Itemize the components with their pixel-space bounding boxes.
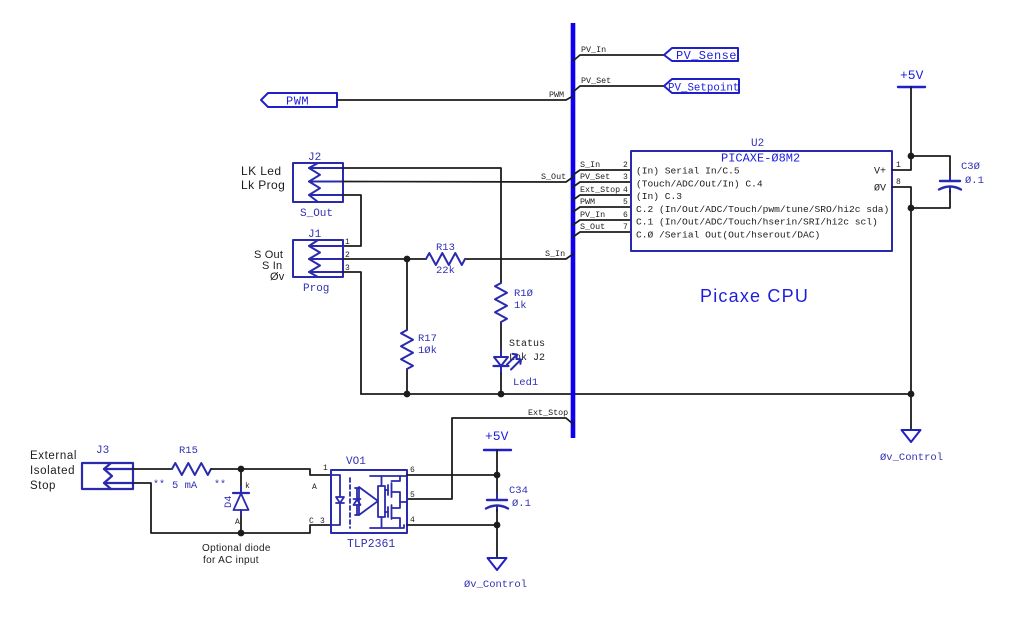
svg-text:Øv: Øv [270, 271, 285, 283]
svg-text:4: 4 [623, 186, 628, 195]
svg-text:1Øk: 1Øk [418, 345, 437, 357]
svg-text:PV_Setpoint: PV_Setpoint [668, 83, 739, 95]
wire C34 to ground [496, 510, 498, 558]
svg-text:**: ** [153, 479, 165, 491]
svg-text:22k: 22k [436, 265, 455, 277]
svg-text:Ø.1: Ø.1 [512, 498, 531, 510]
svg-text:PWM: PWM [580, 197, 595, 207]
resistor R10 [495, 283, 507, 322]
wire opto pin4 to ground rail [407, 524, 497, 526]
svg-text:S_In: S_In [545, 249, 565, 259]
wire R10 bottom lead to LED [500, 322, 502, 351]
capacitor C34 [486, 494, 508, 511]
power +5V (bottom) [484, 429, 511, 450]
svg-text:J2: J2 [308, 152, 321, 164]
wire opto pin6 to +5V [407, 474, 497, 476]
svg-text:A: A [235, 518, 240, 527]
svg-text:3: 3 [623, 173, 628, 182]
svg-text:Status: Status [509, 339, 545, 350]
flag PWM [261, 93, 337, 109]
svg-text:Isolated: Isolated [30, 465, 75, 477]
svg-text:6: 6 [410, 466, 415, 475]
svg-text:PV_In: PV_In [581, 45, 606, 55]
svg-text:1k: 1k [514, 300, 527, 312]
svg-text:Optional diode: Optional diode [202, 543, 271, 554]
connector J2 [293, 163, 343, 202]
svg-text:1: 1 [345, 238, 350, 247]
LED Led1 [494, 350, 522, 374]
junction LED/rail [498, 391, 505, 398]
svg-text:1: 1 [323, 464, 328, 473]
svg-text:PV_Sense: PV_Sense [676, 49, 737, 63]
node bus (main vertical bus) [361, 393, 911, 395]
wire 0v rail (horizontal, crosses under bus) [361, 393, 911, 395]
svg-text:2: 2 [623, 161, 628, 170]
svg-text:R1Ø: R1Ø [514, 288, 533, 300]
wire +5V stem to V+ pin [892, 87, 911, 170]
svg-text:PV_In: PV_In [580, 210, 605, 220]
power +5V (top) [898, 68, 925, 87]
diode D4 [233, 487, 249, 514]
svg-text:Stop: Stop [30, 480, 56, 492]
junction R15/D4 [238, 466, 245, 473]
svg-text:k: k [245, 482, 250, 491]
svg-text:Picaxe CPU: Picaxe CPU [700, 286, 809, 306]
junction 0V/C30 [908, 205, 915, 212]
svg-text:PWM: PWM [549, 90, 564, 100]
wire 0V pin to ground [892, 187, 911, 430]
svg-text:S_Out: S_Out [580, 222, 605, 232]
svg-text:S_In: S_In [580, 160, 600, 170]
svg-text:Ext_Stop: Ext_Stop [528, 408, 568, 418]
svg-text:Øv_Control: Øv_Control [880, 452, 943, 464]
svg-text:LK Led: LK Led [241, 164, 281, 178]
junction V+/C30 [908, 153, 915, 160]
svg-text:PICAXE-Ø8M2: PICAXE-Ø8M2 [721, 152, 800, 166]
svg-text:(In) Serial In/C.5: (In) Serial In/C.5 [636, 166, 740, 177]
svg-text:C: C [309, 517, 314, 526]
flag PV_Setpoint [664, 79, 739, 95]
resistor R17 [401, 330, 413, 369]
svg-text:C.2 (In/Out/ADC/Touch/pwm/tune: C.2 (In/Out/ADC/Touch/pwm/tune/SRO/hi2c … [636, 204, 889, 215]
resistor R15 [172, 463, 211, 475]
wire PV_Set (bus entry to PV_Setpoint flag) [573, 86, 664, 92]
svg-text:D4: D4 [223, 495, 235, 508]
svg-text:External: External [30, 450, 77, 462]
svg-text:C.Ø /Serial Out(Out/hserout/DA: C.Ø /Serial Out(Out/hserout/DAC) [636, 230, 820, 241]
transistor VO1 (opto-coupler TLP2361 body) [331, 470, 407, 533]
svg-text:5: 5 [623, 198, 628, 207]
wire LED to rail [500, 374, 502, 394]
svg-text:VO1: VO1 [346, 456, 366, 468]
svg-text:U2: U2 [751, 138, 764, 150]
wire Ext_Stop net (opto pin5 to bus) [407, 418, 573, 499]
wire C30 bottom branch [911, 191, 950, 208]
svg-text:(In) C.3: (In) C.3 [636, 191, 682, 202]
wire S_In net (J1 pin2 through R13 to bus) [343, 254, 573, 259]
svg-text:**: ** [214, 479, 226, 491]
flag PV_Sense [664, 48, 738, 63]
svg-text:R13: R13 [436, 242, 455, 254]
junction J1pin2/R17 [404, 256, 411, 263]
junction rail/0v_Control [908, 391, 915, 398]
svg-text:Øv_Control: Øv_Control [464, 579, 527, 591]
svg-text:(Touch/ADC/Out/In) C.4: (Touch/ADC/Out/In) C.4 [636, 178, 763, 189]
wire pin7 bus entry [573, 232, 631, 237]
svg-text:5 mA: 5 mA [172, 480, 198, 492]
node U2 pin function text [636, 166, 889, 241]
svg-text:5: 5 [410, 491, 415, 500]
svg-text:4: 4 [410, 516, 415, 525]
node ** marks [153, 479, 226, 491]
svg-text:+5V: +5V [485, 429, 509, 444]
junction D4/bottom rail [238, 530, 245, 537]
wire pin4 bus entry [573, 195, 631, 200]
wire R15 to opto pin1 [211, 469, 331, 475]
connector J1 [293, 240, 343, 277]
wire PV_In (bus entry to PV_Sense flag) [573, 55, 664, 61]
wire +5V stem to C34 [496, 450, 498, 497]
svg-text:for AC input: for AC input [203, 555, 259, 566]
node External Isolated Stop label [30, 450, 77, 492]
wire PWM net (flag to bus) [337, 96, 573, 100]
svg-text:Prog: Prog [303, 283, 329, 295]
ground 0v_Control (bottom) [464, 558, 527, 591]
svg-text:R15: R15 [179, 445, 198, 457]
svg-text:V+: V+ [874, 167, 886, 178]
svg-text:3: 3 [320, 517, 325, 526]
wire J3 pin1 to R15 [133, 468, 172, 470]
svg-text:PV_Set: PV_Set [581, 76, 611, 86]
svg-text:7: 7 [623, 223, 628, 232]
svg-text:PV_Set: PV_Set [580, 172, 610, 182]
junction R17/rail [404, 391, 411, 398]
svg-text:J1: J1 [308, 229, 322, 241]
svg-text:Ø.1: Ø.1 [965, 175, 984, 187]
wire pin6 bus entry [573, 220, 631, 225]
wire D4 leads [240, 469, 242, 533]
wire J1 pin3 to rail [343, 272, 361, 394]
svg-text:S_Out: S_Out [300, 208, 333, 220]
node Optional diode note [202, 543, 271, 566]
svg-text:C34: C34 [509, 485, 528, 497]
svg-text:8: 8 [896, 178, 901, 187]
svg-text:J3: J3 [96, 445, 109, 457]
connector J3 [82, 463, 133, 489]
ground 0v_Control (right) [880, 430, 943, 464]
wire C30 top branch [911, 156, 950, 179]
svg-text:S_Out: S_Out [541, 172, 566, 182]
junction pin6/+5V [494, 472, 501, 479]
svg-text:6: 6 [623, 211, 628, 220]
junction pin4/C34 [494, 522, 501, 529]
capacitor C30 [939, 176, 961, 192]
wire J2 pin3 to J1 pin1 [343, 195, 361, 246]
resistor R13 [426, 253, 465, 265]
svg-text:C3Ø: C3Ø [961, 161, 980, 173]
wire pin2 bus entry [573, 170, 631, 175]
svg-text:Ext_Stop: Ext_Stop [580, 185, 620, 195]
wire pin3 bus entry [573, 182, 631, 187]
node VO1 internals [331, 475, 407, 528]
svg-text:Lk Prog: Lk Prog [241, 178, 285, 192]
wire J2 pin1 to R10 branch [343, 168, 501, 283]
svg-text:PWM: PWM [286, 95, 309, 109]
svg-text:1: 1 [896, 161, 901, 170]
svg-text:ØV: ØV [874, 183, 886, 195]
svg-text:+5V: +5V [900, 68, 924, 83]
wire bus line [571, 23, 576, 438]
svg-text:TLP2361: TLP2361 [347, 538, 395, 551]
svg-text:A: A [312, 483, 317, 492]
wire S_Out net (J2 pin2 to bus) [343, 177, 573, 182]
wire pin5 bus entry [573, 207, 631, 212]
svg-text:Led1: Led1 [513, 377, 538, 389]
svg-text:C.1 (In/Out/ADC/Touch/hserin/S: C.1 (In/Out/ADC/Touch/hserin/SRI/hi2c sc… [636, 217, 878, 228]
op-amp U2 (PICAXE-08M2 IC body) [631, 151, 892, 251]
wire J3 pin2 to bottom rail [133, 483, 331, 533]
svg-text:R17: R17 [418, 333, 437, 345]
wire R17 leads [406, 259, 408, 394]
